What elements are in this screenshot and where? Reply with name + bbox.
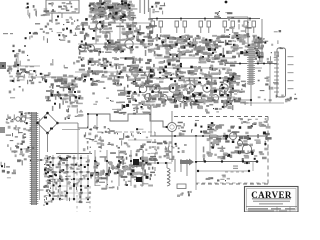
wire: input run [7, 65, 40, 67]
wire: dashed test line x77 [76, 162, 78, 212]
wire: drop x210 [209, 136, 211, 156]
svg-text:CARVER: CARVER [251, 190, 292, 200]
wire: preamp v-run x96 [95, 8, 97, 44]
power label text [281, 94, 297, 103]
wire: bridge output [48, 123, 81, 152]
input RCA marks [10, 58, 34, 82]
resistor R3 cluster below J1 [47, 16, 81, 43]
wire: commutator drive (stepped) [78, 113, 168, 128]
vertical feed x78 [77, 128, 79, 160]
preamp top dark cluster (Q1, C1, R10-R14) [89, 0, 138, 21]
wire from R70 down [232, 85, 252, 106]
mid-left cluster (R60-R68, C20) [7, 54, 30, 84]
transistor Q2 [97, 21, 104, 30]
bridge rectifier D1-D4 [36, 112, 59, 135]
damping resistor R90 [177, 184, 192, 197]
wire: y140 run [128, 139, 152, 141]
wire bus y77 [28, 76, 78, 78]
power switch S1 [15, 146, 31, 165]
right mid cluster [226, 80, 254, 105]
left lower marks [9, 86, 24, 98]
wire: dashed test line x90 [89, 186, 91, 212]
resistors below Q30 [164, 142, 187, 158]
regulator cluster [150, 141, 174, 161]
wire stub y68 [253, 67, 262, 69]
cap C30 cluster [83, 125, 113, 154]
wire: dashed jumper y172 [225, 171, 244, 173]
output transistors Q10-Q14 emitter resistors [151, 19, 256, 34]
wire: vertical x270 [269, 63, 271, 103]
transistor Q8 pair [79, 43, 95, 51]
wire: vertical rail x262 [261, 19, 263, 63]
AC mains cluster [6, 112, 33, 139]
labels above dashed box [205, 105, 224, 113]
bottom-left margin marks [1, 162, 16, 179]
wire bus y161 [196, 160, 258, 163]
wire bus y97 [150, 96, 235, 98]
wire: rail to right [227, 17, 248, 44]
diode ladder strip D10-D20 [44, 155, 53, 206]
wire: preamp h-run y23 [90, 22, 150, 24]
input connector J1 enclosure [46, 0, 79, 14]
wire: horizontal y103 [240, 102, 284, 104]
display board enclosure (dashed) [155, 117, 268, 185]
electrolytic C5 [106, 33, 110, 42]
node A junction [24, 32, 31, 47]
power transformer T1 [30, 112, 40, 205]
sparse pocket marks [78, 87, 114, 104]
driver transistors Q20-Q24 row [152, 84, 228, 92]
wire: T1 primary [26, 112, 32, 130]
caps around Q30 [177, 120, 199, 136]
wire: vertical x151 [150, 106, 152, 136]
wire y172 run [197, 170, 250, 172]
title block: CARVER magnetic field amplifier [245, 187, 299, 213]
wire: bias feed [150, 2, 165, 19]
arrow junction [244, 162, 250, 164]
pilot lamps DS1 DS2 [13, 111, 27, 121]
capacitor C2 cluster left margin [25, 13, 53, 41]
mid-left dense cluster (driver stage) [45, 74, 83, 111]
mid band cluster right part [116, 84, 155, 110]
transistor Q6 [139, 85, 147, 93]
wire: drop x196 [195, 136, 197, 160]
transistor Q7 [145, 94, 152, 101]
wire bus y78 [150, 77, 235, 79]
resistor R5 marks [12, 45, 24, 58]
label row y110 [112, 106, 151, 115]
power resistor ladder R70 (wirewound) [247, 46, 255, 85]
center dense cluster (bias network) [151, 72, 240, 110]
output inductor L1 (coil) [167, 162, 170, 186]
left dash pair [3, 33, 13, 34]
wire bus y136 [150, 135, 268, 137]
sparse marks upper [50, 59, 80, 69]
wire: link x253 [252, 162, 254, 172]
preamp stage cluster (Q2-Q4, R15-R30) [79, 18, 157, 56]
filter capacitor bank C40-C48 [90, 150, 158, 190]
thermal breaker cluster [255, 30, 283, 57]
wire: preamp v-run x120 [119, 23, 121, 52]
wire: feedback vertical x195 [195, 162, 197, 190]
transistor Q5 [125, 40, 133, 48]
label marks top [214, 11, 232, 18]
center upper cluster [152, 57, 237, 77]
output stage dense band (Q10-Q14, R40-R52) [150, 34, 264, 61]
wire: speaker return verticals [175, 159, 187, 176]
wire bus y72 [75, 71, 150, 73]
wire bus y63 [225, 63, 277, 65]
wire bus preamp [78, 43, 148, 45]
display board cluster (U3, R80-R88) [200, 122, 271, 162]
transistor Q3 [117, 11, 124, 18]
equals marks [233, 166, 238, 169]
left margin terminal [0, 62, 6, 69]
preamp extra dense core [92, 2, 134, 18]
wire: arrow drop x97 [96, 114, 99, 131]
wire to J2 [258, 70, 279, 101]
wire bus y163 [150, 162, 172, 164]
wire: dashed bottom y183 [196, 182, 268, 184]
wire bus y68 [150, 67, 230, 69]
mid-left cluster 2 [29, 70, 51, 84]
label marks near bridge [65, 108, 84, 120]
mid band cluster (voltage amp stage) [78, 56, 154, 86]
wire: vertical x18 [17, 55, 19, 75]
AC wiring marks [7, 140, 34, 156]
speaker connector J2 (pin strip) [274, 48, 294, 97]
left margin mark2 [0, 127, 5, 133]
stray marks top-left corner [26, 3, 50, 17]
triac commutator grid TR1-TR12 [50, 154, 92, 204]
wire: preamp v-run x133 [132, 14, 134, 40]
schematic note marks [56, 162, 69, 172]
fuse F1 cluster [225, 1, 252, 47]
arrow marker [180, 159, 197, 166]
display labels row [239, 118, 268, 126]
driver transistors Q25-Q28 row [160, 94, 218, 101]
wire: dash-dot y132 [118, 131, 155, 133]
right mid labels [255, 56, 278, 63]
zobel network marks [206, 175, 230, 182]
wire: T1 to grid [37, 159, 44, 190]
wire from J1 [52, 13, 62, 22]
wire bus y58 [155, 57, 235, 59]
coupling caps strip [140, 0, 149, 14]
transistor Q30 [165, 111, 176, 162]
cluster under step [108, 128, 151, 157]
wire: B+ rail bus [150, 18, 260, 20]
